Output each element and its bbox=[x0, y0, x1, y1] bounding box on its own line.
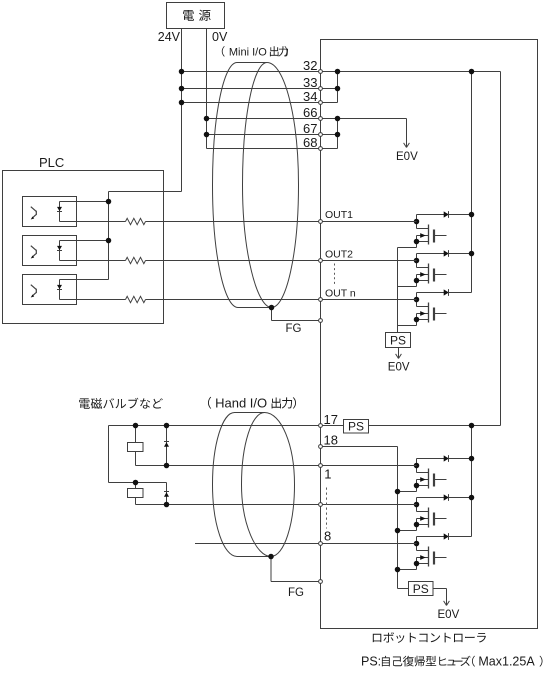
svg-text:OUT n: OUT n bbox=[325, 288, 356, 300]
svg-text:E0V: E0V bbox=[396, 151, 418, 163]
svg-text:17: 17 bbox=[324, 412, 338, 427]
svg-text:PS: PS bbox=[413, 582, 429, 596]
svg-text:FG: FG bbox=[288, 587, 304, 599]
svg-text:66: 66 bbox=[303, 105, 317, 120]
svg-text:PS: PS bbox=[348, 420, 364, 434]
svg-text:PLC: PLC bbox=[39, 155, 64, 170]
svg-text:FG: FG bbox=[286, 323, 302, 335]
svg-text:E0V: E0V bbox=[438, 609, 460, 621]
svg-text:Max1.25A: Max1.25A bbox=[478, 655, 535, 669]
svg-text:E0V: E0V bbox=[388, 362, 410, 374]
svg-text:PS:: PS: bbox=[361, 655, 381, 669]
svg-text:18: 18 bbox=[324, 433, 338, 448]
svg-text:Hand I/O: Hand I/O bbox=[215, 396, 267, 411]
svg-text:OUT1: OUT1 bbox=[325, 209, 353, 221]
svg-text:24V: 24V bbox=[158, 30, 181, 44]
svg-text:1: 1 bbox=[324, 467, 331, 482]
svg-text:34: 34 bbox=[303, 89, 317, 104]
svg-text:0V: 0V bbox=[212, 30, 228, 44]
svg-text:8: 8 bbox=[324, 528, 331, 543]
svg-text:67: 67 bbox=[303, 121, 317, 136]
svg-text:33: 33 bbox=[303, 75, 317, 90]
svg-text:Mini I/O: Mini I/O bbox=[229, 47, 267, 59]
svg-text:32: 32 bbox=[303, 58, 317, 73]
svg-text:68: 68 bbox=[303, 135, 317, 150]
svg-text:OUT2: OUT2 bbox=[325, 249, 353, 261]
svg-text:PS: PS bbox=[390, 334, 406, 348]
